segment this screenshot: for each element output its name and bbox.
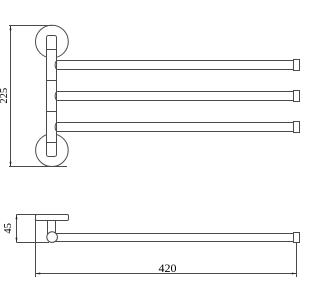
dim 45 dimension line [16,215,18,243]
side view arm bar bottom line [52,241,294,243]
arm 1 end cap [294,60,300,71]
svg-text:225: 225 [0,88,10,104]
arm 3 bar [55,123,293,132]
dim 225 top extension line [9,25,52,27]
post joint line 4 [47,142,57,144]
post joint line 2 [47,80,57,82]
post joint line 1 [47,49,57,51]
side view pivot circle [47,232,58,243]
post joint line 3 [47,111,57,113]
dim 45 arrow up [16,215,18,219]
side view neck right line [55,221,57,234]
arm 1 bar [55,61,293,70]
side view arm bar top line [52,233,294,235]
post body [47,36,57,157]
arm 2 bar [55,92,293,101]
svg-text:45: 45 [3,223,14,234]
dim 225 bottom extension line [9,166,67,168]
dim 420 dimension line [36,273,297,275]
side view wall plate [36,215,69,221]
side view: 45 top extension line [17,214,37,216]
arm 2 end cap [294,91,300,102]
dim 420 arrow left [36,273,40,275]
side view arm end cap [294,233,300,243]
bottom wall flange circle [36,134,69,167]
dim 225 arrow up [10,26,12,30]
side view: 45 bottom extension line [17,242,50,244]
dim 420 right extension line [296,243,298,277]
svg-text:420: 420 [159,261,177,275]
dim 225 dimension line [10,26,12,167]
arm 3 end cap [294,122,300,133]
dim 45 arrow down [16,238,18,242]
side view neck left line [47,221,49,235]
top wall flange circle [36,25,69,58]
dim 420 arrow right [292,273,296,275]
side view: 420 left extension line [35,215,37,278]
dim 225 arrow down [10,162,12,166]
